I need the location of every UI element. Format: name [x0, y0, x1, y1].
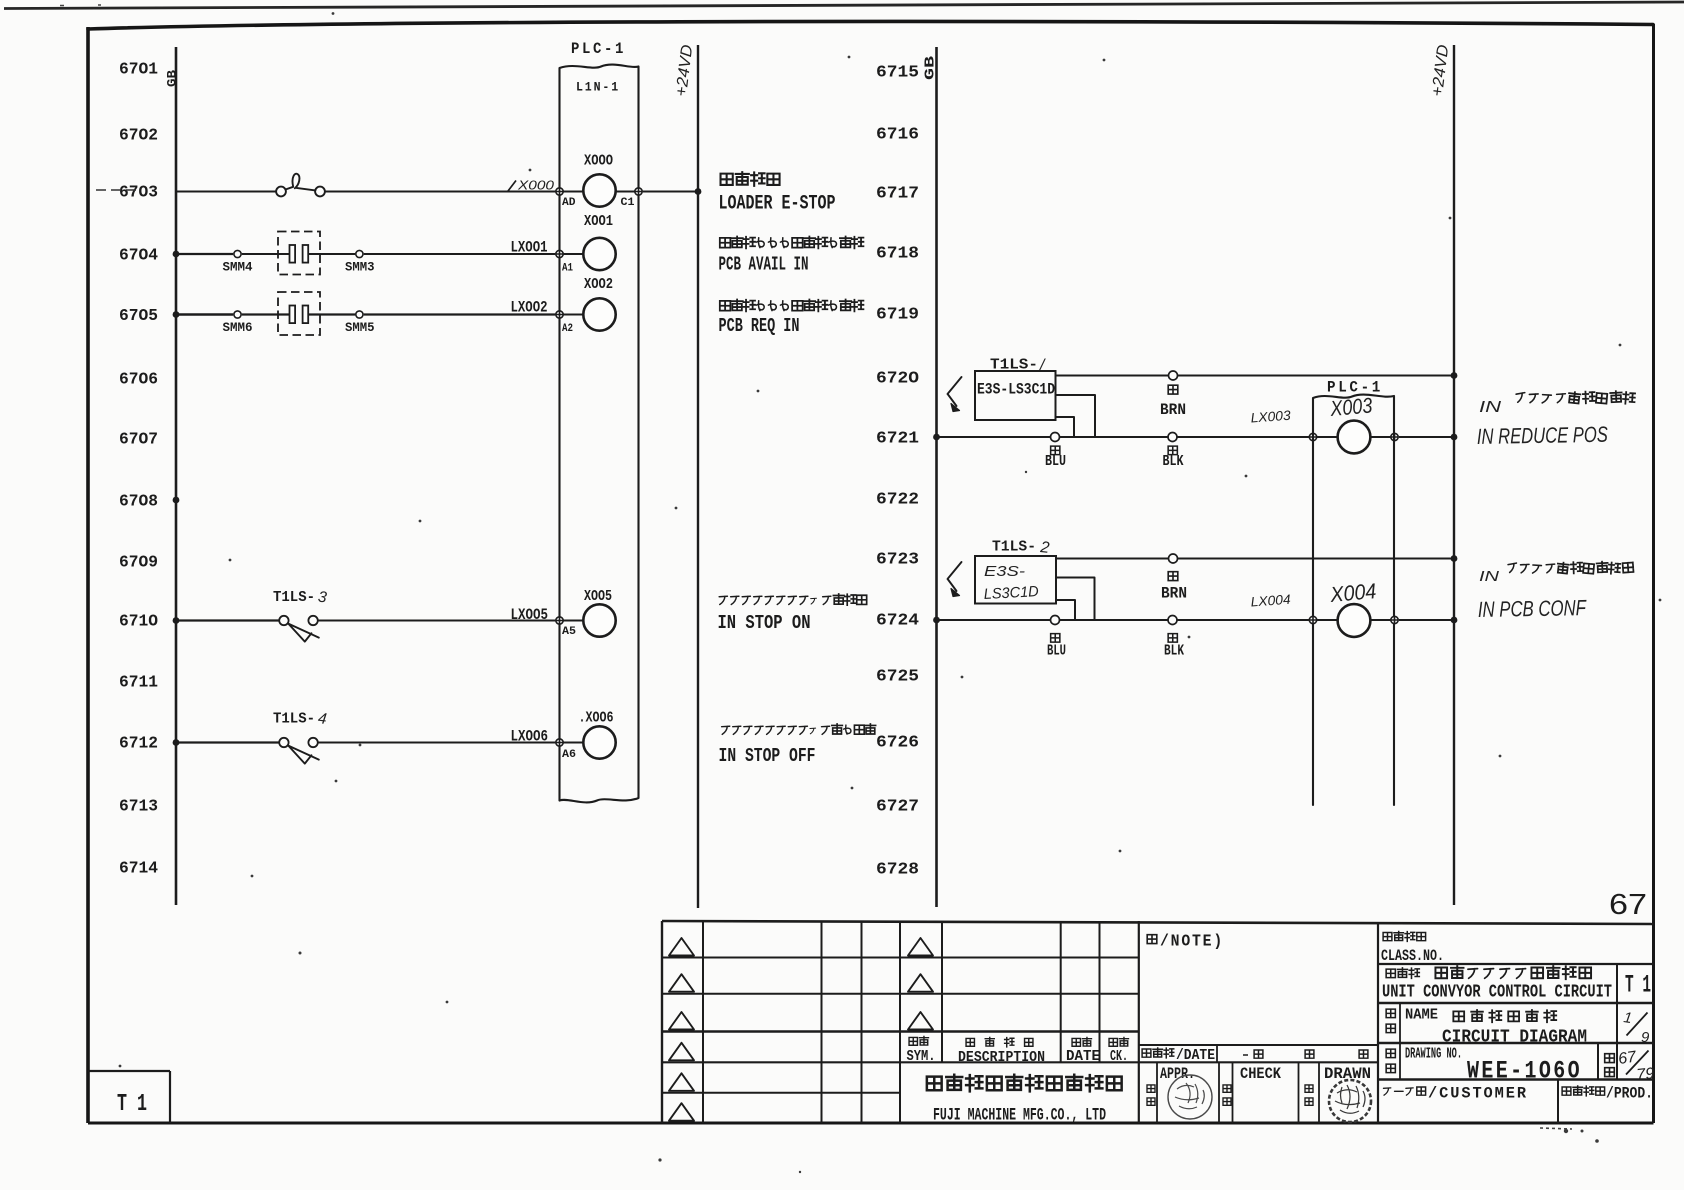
- terminal A5 on PLC-1: [556, 617, 563, 624]
- input coil X003: [1338, 421, 1371, 454]
- stray dash left of 6703: [96, 189, 137, 191]
- wire BLU T1LS-1 down to rung 6721: [1056, 417, 1075, 437]
- wire terminal A1 to coil X001: [564, 253, 584, 255]
- svg-text:IN STOP ON: IN STOP ON: [718, 612, 811, 634]
- limit switch contact T1LS-3: [279, 616, 288, 625]
- svg-text:XOO1: XOO1: [584, 214, 613, 230]
- terminal A6 on PLC-1: [556, 739, 563, 746]
- svg-text:DESCRIPTION: DESCRIPTION: [958, 1049, 1045, 1066]
- svg-text:UNIT CONVYOR CONTROL CIRCUIT: UNIT CONVYOR CONTROL CIRCUIT: [1382, 983, 1612, 1003]
- junction dot GB rail rung 6721: [933, 434, 940, 441]
- input coil X001: [583, 238, 615, 270]
- svg-text:67O4: 67O4: [119, 246, 158, 265]
- wire terminal AD to coil X000: [564, 191, 584, 193]
- svg-text:/PROD.: /PROD.: [1606, 1085, 1653, 1103]
- svg-text:CK.: CK.: [1110, 1048, 1128, 1065]
- svg-text:PLC-1: PLC-1: [571, 40, 626, 58]
- junction dot +24VD rail rung 6721: [1451, 434, 1458, 441]
- svg-text:6723: 6723: [876, 550, 919, 569]
- svg-text:6712: 6712: [119, 734, 158, 753]
- svg-text:DATE: DATE: [1066, 1048, 1100, 1065]
- svg-text:XOO2: XOO2: [584, 277, 613, 293]
- svg-text:67O3: 67O3: [119, 183, 158, 202]
- emergency stop contact (loader E-STOP pushbutton): [276, 187, 286, 197]
- svg-text:PCB REQ IN: PCB REQ IN: [719, 315, 800, 337]
- svg-text:6718: 6718: [876, 244, 919, 263]
- wire BRN T1LS-2 to +24VD rail (rung 6723): [1056, 558, 1454, 560]
- svg-text:/DATE: /DATE: [1176, 1047, 1215, 1064]
- svg-text:FUJI MACHINE MFG.CO., LTD: FUJI MACHINE MFG.CO., LTD: [933, 1106, 1106, 1126]
- terminal BLU (rung 6724): [1051, 616, 1060, 625]
- PLC module PLC-1 (left) box: [560, 65, 639, 803]
- terminal SMM3: [356, 250, 363, 257]
- svg-text:6725: 6725: [876, 667, 919, 686]
- wire terminal A2 to coil X002: [564, 314, 584, 316]
- svg-text:T1LS-: T1LS-: [273, 712, 315, 728]
- label blue (kanji): [1051, 446, 1060, 455]
- wire rung 6705 from GB rail to SMM6: [176, 313, 233, 315]
- svg-text:XOO5: XOO5: [584, 589, 612, 605]
- svg-text:2: 2: [1039, 539, 1051, 557]
- svg-text:SMM4: SMM4: [223, 261, 253, 275]
- svg-text:6722: 6722: [876, 490, 919, 509]
- svg-text:PCB AVAIL IN: PCB AVAIL IN: [719, 254, 809, 276]
- svg-text:LOADER E-STOP: LOADER E-STOP: [719, 193, 836, 216]
- junction dot GB rail rung 6704: [173, 251, 180, 258]
- svg-text:E3S-: E3S-: [984, 563, 1025, 580]
- svg-text:6726: 6726: [876, 733, 919, 752]
- connector SMM (dashed enclosure, rung 6704): [278, 232, 320, 275]
- svg-text:CHECK: CHECK: [1240, 1065, 1282, 1083]
- label brown (kanji): [1168, 385, 1178, 394]
- label brown 2 (kanji): [1168, 572, 1178, 581]
- terminal BLK (rung 6724): [1168, 616, 1177, 625]
- svg-text:67O2: 67O2: [119, 126, 158, 145]
- svg-text:6713: 6713: [119, 797, 158, 816]
- svg-text:6728: 6728: [876, 860, 919, 879]
- note rung 6705: PCB request from next process (Japanese): [720, 301, 731, 311]
- terminal on right PLC-1 (rung 6724 left): [1309, 616, 1316, 623]
- junction dot GB rail node 6708: [173, 497, 180, 504]
- svg-text:672O: 672O: [876, 369, 919, 388]
- svg-text:X000: X000: [517, 178, 555, 193]
- svg-text:6715: 6715: [876, 63, 919, 82]
- svg-text:SMM5: SMM5: [345, 321, 375, 335]
- svg-text:LX004: LX004: [1250, 592, 1291, 610]
- wire limit switch to PLC terminal A6: [318, 742, 555, 744]
- svg-text:C1: C1: [621, 197, 636, 209]
- wire SMM3 to PLC terminal A1: [364, 253, 556, 255]
- wire SMM6 to connector: [242, 313, 289, 315]
- terminal BLU (rung 6721): [1051, 433, 1060, 442]
- svg-text:PLC-1: PLC-1: [1327, 379, 1383, 397]
- label LX000 (handwritten): [508, 181, 516, 192]
- terminal AD on PLC-1: [556, 188, 563, 195]
- right power rail GB (right half, bus x=936.5): [935, 47, 938, 907]
- wire rung 6721 GB rail to PLC terminal: [937, 436, 1310, 438]
- right power rail +24VD (right half, bus x=1454): [1453, 45, 1455, 905]
- svg-text:6727: 6727: [876, 797, 919, 816]
- svg-text:A6: A6: [562, 749, 576, 761]
- svg-text:AD: AD: [562, 197, 576, 209]
- svg-text:67O1: 67O1: [119, 60, 158, 79]
- svg-text:X004: X004: [1328, 579, 1377, 607]
- terminal SMM4: [234, 250, 241, 257]
- svg-text:BLK: BLK: [1163, 453, 1184, 470]
- junction dot at +24VD rail rung 6703: [695, 188, 702, 195]
- note rung 6712: in-conveyor stopper off (Japanese): [722, 726, 730, 734]
- svg-text:6719: 6719: [876, 305, 919, 324]
- photo sensor T1LS-1 enclosure: [975, 371, 1056, 420]
- svg-text:IN STOP OFF: IN STOP OFF: [719, 745, 816, 767]
- wire BLK T1LS-1 down to rung 6721: [1056, 395, 1096, 437]
- svg-text:NAME: NAME: [1405, 1007, 1438, 1024]
- svg-text:/CUSTOMER: /CUSTOMER: [1428, 1085, 1528, 1103]
- svg-text:T1LS-: T1LS-: [990, 358, 1038, 374]
- PLC module PLC-1 (right) box: [1313, 395, 1394, 805]
- wire C1 to +24VD rail: [643, 191, 698, 193]
- svg-text:IN REDUCE POS: IN REDUCE POS: [1477, 422, 1609, 449]
- svg-text:A2: A2: [562, 323, 573, 335]
- terminal on right PLC-1 (rung 6721 left): [1309, 433, 1316, 440]
- svg-text:E3S-LS3C1D: E3S-LS3C1D: [977, 381, 1055, 399]
- junction dot GB rail rung 6705: [173, 311, 180, 318]
- svg-text:67: 67: [1609, 889, 1647, 921]
- svg-text:79: 79: [1636, 1065, 1656, 1084]
- svg-text:L1N-1: L1N-1: [576, 81, 620, 95]
- svg-text:6716: 6716: [876, 125, 919, 144]
- label blue 2 (kanji): [1051, 634, 1060, 643]
- input coil X004: [1338, 604, 1371, 637]
- note rung 6710: in-conveyor stopper on (Japanese): [719, 596, 727, 604]
- photo sensor T1LS-2 enclosure: [975, 556, 1056, 604]
- svg-text:T1LS-: T1LS-: [992, 540, 1036, 556]
- svg-text:BRN: BRN: [1161, 585, 1187, 603]
- terminal BRN (rung 6720): [1169, 371, 1178, 380]
- input coil X005: [583, 604, 615, 636]
- svg-text:6717: 6717: [876, 184, 919, 203]
- svg-text:LX003: LX003: [1250, 408, 1291, 426]
- svg-text:/NOTE): /NOTE): [1160, 932, 1224, 951]
- label black (kanji): [1168, 446, 1177, 455]
- terminal A2 on PLC-1: [556, 311, 563, 318]
- svg-text:67O5: 67O5: [119, 306, 158, 325]
- terminal SMM6: [234, 311, 241, 318]
- terminal SMM5: [356, 311, 363, 318]
- wire rung 6703 contact to PLC terminal: [325, 191, 555, 193]
- svg-text:LXOO1: LXOO1: [511, 239, 548, 257]
- junction dot GB rail rung 6710: [173, 617, 180, 624]
- terminal A1 on PLC-1: [556, 250, 563, 257]
- svg-text:6714: 6714: [119, 859, 158, 878]
- wire rung 6704 from GB rail to SMM4: [176, 253, 233, 255]
- wire terminal A5 to coil X005: [564, 620, 584, 622]
- wire rung 6710 from GB rail to limit switch: [176, 619, 279, 621]
- wire SMM5 to PLC terminal A2: [364, 313, 556, 315]
- svg-text:67O9: 67O9: [119, 553, 158, 572]
- right power rail +24VD (left half, bus x=698): [697, 45, 699, 908]
- label black 2 (kanji): [1168, 634, 1177, 643]
- wire rung 6724 to +24VD rail: [1399, 619, 1454, 621]
- svg-text:SMM3: SMM3: [345, 261, 375, 275]
- wire BLU T1LS-2 down to rung 6724: [1056, 600, 1075, 620]
- svg-text:CIRCUIT DIAGRAM: CIRCUIT DIAGRAM: [1442, 1027, 1587, 1048]
- svg-text:T1LS-: T1LS-: [273, 590, 315, 606]
- svg-text:T 1: T 1: [1625, 971, 1651, 1000]
- svg-text:6724: 6724: [876, 611, 919, 630]
- svg-text:LXOO6: LXOO6: [511, 728, 549, 746]
- wire rung 6712 from GB rail to limit switch: [176, 741, 279, 743]
- svg-text:LS3C1D: LS3C1D: [983, 583, 1039, 603]
- terminal on right PLC-1 (rung 6721 right): [1391, 433, 1398, 440]
- input coil X002: [583, 298, 615, 330]
- wire rung 6703 from GB rail to e-stop contact: [176, 191, 277, 193]
- svg-text:APPR.: APPR.: [1160, 1065, 1195, 1083]
- svg-text:9: 9: [1641, 1029, 1650, 1046]
- svg-text:T 1: T 1: [117, 1091, 147, 1118]
- svg-text:LXOO2: LXOO2: [511, 299, 548, 317]
- svg-text:6721: 6721: [876, 429, 919, 448]
- svg-text:DRAWING NO.: DRAWING NO.: [1405, 1047, 1462, 1063]
- wire terminals to coil X004: [1317, 619, 1338, 621]
- wire limit switch to PLC terminal A5: [318, 620, 555, 622]
- left power rail GB (bus x=176): [175, 47, 178, 905]
- svg-text:A1: A1: [562, 263, 573, 275]
- svg-text:67O7: 67O7: [119, 430, 158, 449]
- svg-text:IN: IN: [1479, 568, 1499, 585]
- limit switch contact T1LS-4: [279, 738, 288, 747]
- wire connector to SMM3: [308, 253, 355, 255]
- svg-text:67O8: 67O8: [119, 492, 158, 511]
- svg-text:BLU: BLU: [1045, 453, 1066, 470]
- svg-text:6711: 6711: [119, 673, 158, 692]
- input coil X000: [583, 174, 615, 206]
- wire terminal A6 to coil X006: [564, 742, 584, 744]
- svg-text:IN PCB CONF: IN PCB CONF: [1478, 595, 1588, 622]
- input coil X006: [583, 726, 615, 758]
- svg-text:IN: IN: [1479, 399, 1502, 416]
- wire connector to SMM5: [308, 313, 355, 315]
- svg-text:A5: A5: [562, 626, 576, 638]
- junction dot +24VD rail rung 6723: [1451, 555, 1458, 562]
- svg-text:GB: GB: [165, 70, 180, 87]
- junction dot GB rail rung 6724: [933, 617, 940, 624]
- title block: [88, 921, 1655, 1129]
- svg-text:BLK: BLK: [1164, 643, 1184, 660]
- svg-text:WEE-1O6O: WEE-1O6O: [1467, 1057, 1582, 1086]
- svg-text:BLU: BLU: [1047, 643, 1066, 660]
- svg-text:SYM.: SYM.: [907, 1048, 936, 1065]
- terminal BRN (rung 6723): [1169, 554, 1178, 563]
- note rung 6703: emergency stop (Japanese): [721, 174, 733, 185]
- svg-text:671O: 671O: [119, 612, 158, 631]
- light beam arrow into T1LS-2: [948, 562, 962, 591]
- wire rung 6724 GB rail to PLC terminal: [937, 619, 1310, 621]
- wire rung 6721 to +24VD rail: [1399, 436, 1454, 438]
- svg-text:67O6: 67O6: [119, 370, 158, 389]
- junction dot GB rail rung 6712: [173, 739, 180, 746]
- terminal C1 on PLC-1: [635, 188, 642, 195]
- terminal BLK (rung 6721): [1168, 433, 1177, 442]
- wire BLK T1LS-2 down to rung 6724: [1056, 578, 1095, 621]
- wire terminals to coil X003: [1317, 436, 1338, 438]
- junction dot +24VD rail rung 6720: [1451, 372, 1458, 379]
- svg-text:XOOO: XOOO: [584, 154, 613, 170]
- wire SMM4 to connector: [242, 253, 289, 255]
- svg-text:GB: GB: [923, 55, 939, 80]
- svg-text:SMM6: SMM6: [223, 321, 253, 335]
- light beam arrow into T1LS-1: [948, 377, 962, 406]
- svg-text:CLASS.NO.: CLASS.NO.: [1381, 947, 1444, 965]
- connector SMM (dashed enclosure, rung 6705): [278, 292, 320, 335]
- svg-text:LXOO5: LXOO5: [511, 606, 549, 624]
- wire BRN T1LS-1 to +24VD rail (rung 6720): [1056, 375, 1455, 377]
- svg-text:.XOO6: .XOO6: [579, 711, 614, 727]
- terminal on right PLC-1 (rung 6724 right): [1391, 616, 1398, 623]
- junction dot +24VD rail rung 6724: [1451, 617, 1458, 624]
- note rung 6704: PCB available from previous process (Japanese): [720, 238, 731, 248]
- svg-text:BRN: BRN: [1160, 401, 1186, 419]
